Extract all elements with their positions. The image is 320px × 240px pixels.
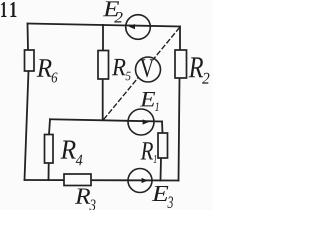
resistor R3 — [64, 174, 91, 186]
source E1 circle — [128, 109, 154, 135]
wire R1 branch upper corner to R1 — [161, 122, 164, 134]
wire R4 branch lower R4 to bottom wire — [48, 163, 50, 180]
label E2 — [103, 1, 123, 22]
wire right branch lower R2 to bottom corner — [179, 78, 180, 181]
wire left branch lower R6 to bottom corner — [25, 71, 29, 180]
label E3 — [152, 186, 173, 208]
voltmeter U1 circle — [136, 57, 161, 82]
dashed measurement line node A to top-right corner — [104, 27, 180, 119]
voltmeter V letter — [140, 59, 154, 77]
label R5 — [112, 59, 131, 80]
label R3 — [75, 189, 96, 211]
wire top node — [28, 24, 181, 27]
resistor R1 — [158, 133, 168, 158]
label R2 — [189, 57, 210, 83]
wire R4 branch upper corner to R4 — [49, 119, 50, 134]
label R4 — [61, 140, 83, 165]
source E2 circle — [126, 15, 151, 40]
source E2 arrow — [129, 24, 135, 29]
resistor R2 — [175, 50, 187, 78]
source E3 arrow — [142, 178, 148, 183]
problem number 11 — [1, 2, 16, 17]
wire right branch upper to R2 — [179, 27, 181, 51]
wire left branch upper to R6 — [27, 24, 30, 51]
wire R5 branch lower to node A — [102, 79, 104, 120]
resistor R4 — [45, 135, 54, 164]
source E3 circle — [128, 169, 152, 193]
label R6 — [37, 59, 58, 82]
wire middle horizontal node A to E1 to corner — [50, 119, 162, 121]
label R1 — [140, 142, 156, 163]
wire bottom node — [25, 179, 179, 182]
source E1 arrow — [143, 119, 149, 124]
label E1 — [140, 92, 159, 111]
resistor R6 — [25, 50, 35, 71]
wire R1 branch lower R1 to bottom wire — [160, 158, 163, 181]
wire R5 branch upper — [102, 25, 104, 51]
resistor R5 — [98, 51, 109, 80]
